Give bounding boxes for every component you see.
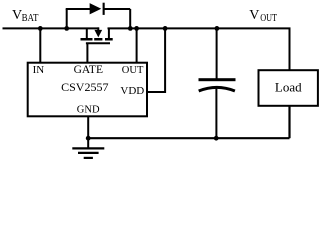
wire xyxy=(216,28,218,78)
wire xyxy=(87,117,89,148)
net label VOUT xyxy=(249,8,277,24)
wire xyxy=(105,8,131,10)
wire xyxy=(136,28,138,62)
wire xyxy=(288,106,290,138)
wire xyxy=(215,89,217,139)
junction xyxy=(214,136,219,141)
junction xyxy=(134,26,139,31)
svg-text:V: V xyxy=(249,8,259,23)
svg-text:VDD: VDD xyxy=(120,85,144,97)
ground xyxy=(72,148,104,158)
wire xyxy=(66,9,68,29)
capacitor C1 xyxy=(199,78,236,91)
junction xyxy=(128,26,133,31)
svg-text:OUT: OUT xyxy=(260,13,277,24)
svg-text:GATE: GATE xyxy=(74,64,103,76)
wire xyxy=(129,9,131,28)
svg-text:Load: Load xyxy=(275,80,302,95)
junction xyxy=(163,26,168,31)
net label VBAT xyxy=(12,8,39,24)
wire xyxy=(88,137,289,139)
svg-text:IN: IN xyxy=(33,64,45,76)
diode D1 xyxy=(90,3,105,15)
junction xyxy=(86,136,91,141)
wire xyxy=(148,28,166,92)
wire xyxy=(108,28,290,70)
junction xyxy=(38,26,43,31)
junction xyxy=(64,26,69,31)
svg-text:CSV2557: CSV2557 xyxy=(61,80,108,94)
load xyxy=(259,70,318,106)
junction xyxy=(215,26,220,31)
svg-text:BAT: BAT xyxy=(22,13,39,24)
svg-text:GND: GND xyxy=(77,105,100,116)
wire xyxy=(3,27,100,29)
wire xyxy=(66,8,90,10)
IC U1 CSV2557 xyxy=(28,63,147,117)
wire xyxy=(39,28,41,62)
svg-text:V: V xyxy=(12,8,22,23)
wire xyxy=(86,43,88,62)
transistor Q1 xyxy=(81,27,113,43)
svg-text:OUT: OUT xyxy=(122,65,144,76)
